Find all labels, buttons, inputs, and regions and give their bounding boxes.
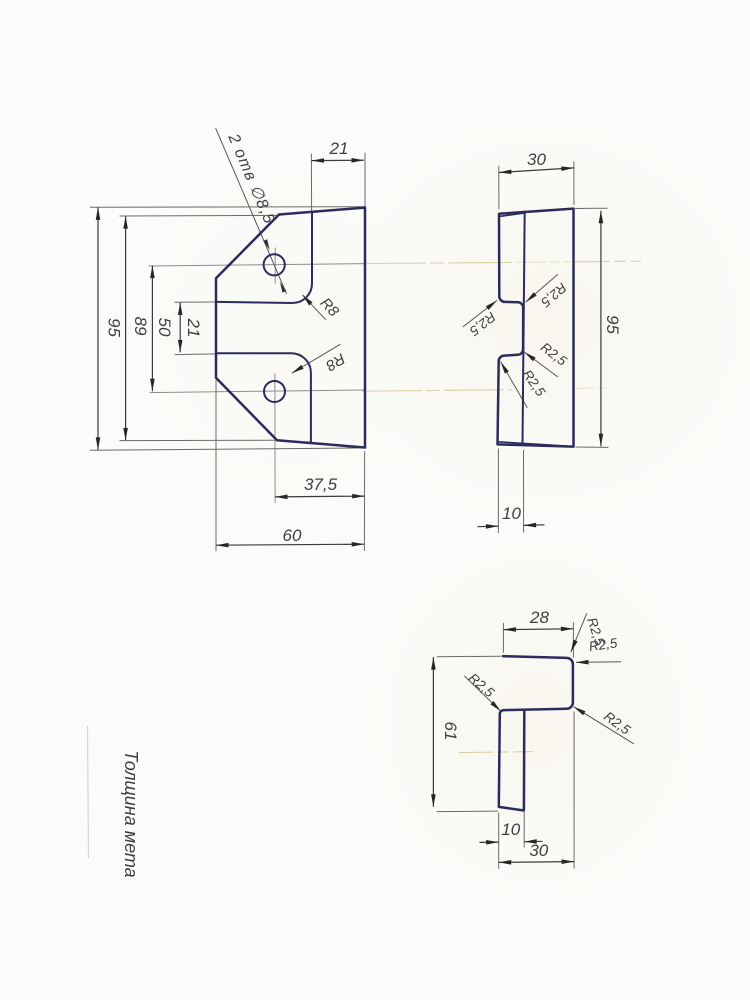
svg-text:10: 10 [501, 820, 520, 839]
extension line dim 30 bottom view right [573, 712, 575, 869]
leader R8 lower [292, 344, 341, 373]
front view part outline [216, 208, 365, 448]
dimension line 21 left front [179, 303, 181, 353]
dimension line 21 top front [312, 159, 365, 161]
svg-text:21: 21 [184, 318, 203, 338]
svg-text:50: 50 [155, 318, 174, 337]
svg-text:95: 95 [105, 318, 124, 337]
leader arrow upper at hole [263, 239, 269, 250]
extension line dim 95 side bottom [576, 446, 609, 448]
bottom view part outline (T profile) [499, 656, 573, 810]
svg-text:10: 10 [502, 504, 521, 523]
leader line 2 holes dia 8,5 [216, 128, 287, 294]
leader R2,5 side notch bottom-outer [501, 362, 528, 408]
leader arrow lower at hole [280, 282, 286, 293]
dimension line 95 front [98, 160, 365, 545]
extension line dim 95 front bottom [90, 448, 367, 450]
extension line dim 61 bottom [437, 810, 498, 813]
extension line dim 28 left [437, 622, 574, 869]
centerline upper hole horizontal (gray, through front view) [149, 248, 367, 504]
dimension line 60 front [216, 544, 364, 545]
leader R2,5 side notch top-right [526, 274, 558, 302]
text 95 front [105, 139, 623, 860]
svg-text:61: 61 [441, 722, 460, 741]
side view part outline with notch R2,5 [498, 209, 574, 447]
dimension line 50 front [151, 266, 153, 392]
extension line dim 60 left [215, 380, 217, 551]
extension line dim 21 top right [364, 153, 366, 207]
centerline lower hole axis, tan segment between views [362, 390, 512, 392]
svg-text:30: 30 [529, 841, 548, 860]
extension line dim 21 left bottom [175, 353, 217, 356]
dimension line 30 side [478, 168, 601, 527]
svg-text:37,5: 37,5 [304, 475, 338, 494]
extension line dims 37,5 and 60 right [363, 451, 365, 551]
svg-text:21: 21 [329, 139, 349, 158]
faint sheet frame line bottom-left [88, 726, 89, 858]
dimension line 30 bottom view [499, 861, 574, 864]
dimension line 37,5 front [275, 495, 365, 498]
centerline lower hole horizontal (gray, through front view) [150, 390, 367, 393]
extension line dim 61 top [437, 655, 502, 658]
extension line dim 95 front top [90, 153, 367, 552]
text R2,5 bottom view top corner steep [466, 616, 634, 738]
dimension line 10 bottom view right arrow [524, 840, 542, 842]
leader R2,5 bottom view stem fillet [464, 676, 501, 712]
dimension line 61 bottom view [432, 657, 434, 807]
leader R2,5 bottom view right horizontal [576, 661, 621, 664]
dimension line 10 side right arrow [524, 524, 545, 527]
leader R2,5 side notch bottom-inner [524, 352, 558, 377]
text R2,5 side notch top-right (reversed) [466, 280, 570, 400]
extension line dim 10 bottom view left [498, 813, 500, 869]
svg-text:Толщина мета: Толщина мета [121, 750, 141, 877]
dimension line 95 side [600, 211, 602, 446]
leader R2,5 side notch top-left [463, 300, 497, 327]
centerline lower hole vertical, also extension of dim 37,5 [274, 374, 276, 504]
centerline upper hole vertical [274, 248, 276, 284]
extension line dim 21 left top [175, 301, 217, 303]
dimension line 10 bottom view left arrow [480, 841, 499, 843]
svg-text:60: 60 [283, 526, 302, 545]
hole upper dia 8,5 [264, 254, 285, 275]
extension line dim 30 side left [498, 162, 608, 534]
dimension line 10 side left arrow [478, 525, 499, 528]
leader R2,5 bottom view top corner steep [571, 613, 587, 652]
extension line dim 21 top left [310, 154, 312, 212]
extension line dim 89 bottom [120, 439, 277, 441]
side view recess floor bottom edge [498, 442, 567, 446]
leader R2,5 bottom view lower right corner [574, 707, 634, 744]
centerline bottom view stem (tan) [459, 752, 533, 753]
hole lower dia 8,5 [264, 381, 285, 402]
extension line dim 10 bottom view right [523, 812, 525, 848]
svg-text:95: 95 [603, 315, 622, 334]
front view lower recess step edge with fillet R8 [216, 353, 311, 443]
extension line dim 10 side right [523, 450, 525, 533]
side view recess floor edge vertical [523, 211, 525, 446]
svg-text:89: 89 [131, 317, 150, 336]
title text Tolshchina meta (rotated) [121, 750, 141, 877]
extension line dim 10 side left [497, 449, 499, 534]
front view upper recess step edge with fillet R8 [216, 212, 312, 303]
extension line dim 30 side right [573, 162, 575, 206]
centerline upper hole axis, tan segment between views [362, 261, 641, 752]
extension line dim 95 side top [575, 207, 608, 209]
side view recess floor top edge [499, 213, 524, 217]
dimension line 89 front [125, 216, 127, 440]
extension line dim 28 right [572, 622, 574, 657]
leader R8 upper [302, 295, 326, 320]
svg-text:28: 28 [529, 608, 549, 627]
svg-text:30: 30 [527, 150, 546, 169]
dimension line 28 bottom view [433, 629, 574, 863]
extension line dim 89 top [120, 214, 281, 217]
text label 2 holes dia 8,5 [224, 131, 348, 375]
